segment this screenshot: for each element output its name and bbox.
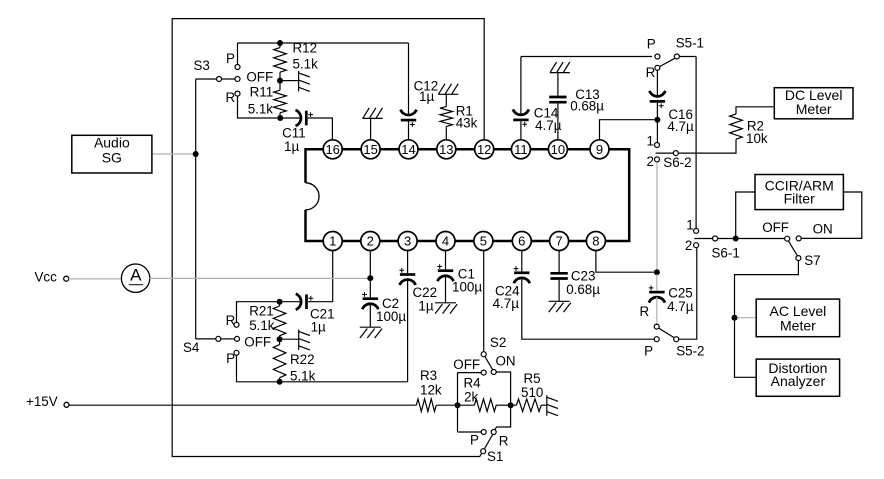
svg-text:P: P	[226, 51, 235, 66]
svg-text:S6-1: S6-1	[712, 246, 740, 261]
svg-text:4.7µ: 4.7µ	[535, 118, 562, 133]
svg-text:Analyzer: Analyzer	[771, 373, 826, 389]
svg-text:5.1k: 5.1k	[293, 57, 319, 72]
svg-text:5.1k: 5.1k	[249, 318, 275, 333]
svg-text:1: 1	[329, 234, 336, 249]
svg-text:2k: 2k	[464, 390, 478, 405]
svg-text:R: R	[646, 65, 656, 80]
svg-text:4: 4	[442, 234, 449, 249]
svg-text:5: 5	[480, 234, 487, 249]
svg-text:43k: 43k	[456, 116, 478, 131]
svg-text:100µ: 100µ	[452, 280, 482, 295]
svg-text:R: R	[499, 433, 509, 448]
svg-text:12: 12	[477, 142, 491, 157]
svg-text:10k: 10k	[746, 131, 768, 146]
svg-text:S1: S1	[487, 449, 503, 464]
svg-text:Filter: Filter	[784, 191, 815, 207]
svg-text:1: 1	[647, 133, 654, 148]
svg-text:1µ: 1µ	[284, 139, 299, 154]
svg-text:8: 8	[592, 234, 599, 249]
svg-text:510: 510	[521, 385, 543, 400]
svg-text:SG: SG	[102, 149, 122, 165]
svg-text:R3: R3	[420, 368, 437, 383]
svg-text:100µ: 100µ	[376, 309, 406, 324]
svg-text:R22: R22	[290, 352, 315, 367]
svg-text:OFF: OFF	[453, 357, 480, 372]
svg-text:7: 7	[555, 234, 562, 249]
svg-text:OFF: OFF	[244, 335, 271, 350]
svg-text:R5: R5	[524, 371, 541, 386]
svg-text:5.1k: 5.1k	[290, 369, 316, 384]
svg-text:S2: S2	[490, 335, 506, 350]
svg-text:R: R	[226, 313, 236, 328]
svg-text:2: 2	[367, 234, 374, 249]
svg-text:3: 3	[404, 234, 411, 249]
svg-text:+15V: +15V	[26, 394, 58, 409]
svg-text:0.68µ: 0.68µ	[566, 282, 600, 297]
svg-text:1: 1	[686, 217, 693, 232]
svg-text:4.7µ: 4.7µ	[667, 119, 694, 134]
svg-text:11: 11	[514, 142, 528, 157]
svg-text:P: P	[647, 36, 656, 51]
svg-text:S4: S4	[183, 340, 200, 355]
svg-text:R: R	[226, 90, 236, 105]
svg-text:A: A	[130, 266, 142, 285]
svg-text:1µ: 1µ	[418, 299, 433, 314]
svg-text:R21: R21	[249, 303, 274, 318]
svg-text:S6-2: S6-2	[663, 155, 691, 170]
svg-text:1µ: 1µ	[419, 89, 434, 104]
svg-text:P: P	[226, 351, 235, 366]
svg-text:4.7µ: 4.7µ	[493, 296, 520, 311]
svg-text:14: 14	[401, 142, 415, 157]
svg-text:S7: S7	[804, 253, 820, 268]
svg-text:P: P	[644, 343, 653, 358]
svg-text:12k: 12k	[420, 383, 442, 398]
svg-text:OFF: OFF	[762, 220, 789, 235]
svg-text:Meter: Meter	[780, 318, 816, 334]
svg-text:R11: R11	[250, 85, 274, 100]
svg-text:OFF: OFF	[246, 69, 273, 84]
svg-text:Audio: Audio	[94, 135, 130, 151]
svg-text:S3: S3	[194, 58, 210, 73]
svg-text:10: 10	[551, 142, 565, 157]
svg-text:S5-1: S5-1	[676, 36, 704, 51]
svg-text:R: R	[640, 304, 650, 319]
svg-text:ON: ON	[496, 354, 516, 369]
svg-text:1µ: 1µ	[311, 320, 326, 335]
svg-text:4.7µ: 4.7µ	[667, 299, 694, 314]
svg-text:6: 6	[518, 234, 525, 249]
svg-text:Vcc: Vcc	[35, 270, 58, 285]
svg-text:S5-2: S5-2	[676, 343, 704, 358]
svg-text:R4: R4	[464, 376, 482, 391]
svg-text:ON: ON	[813, 221, 833, 236]
svg-text:2: 2	[685, 238, 692, 253]
svg-text:2: 2	[647, 154, 654, 169]
svg-text:13: 13	[439, 142, 453, 157]
svg-text:Meter: Meter	[796, 101, 832, 117]
svg-text:15: 15	[363, 142, 377, 157]
svg-text:R12: R12	[293, 41, 318, 56]
svg-text:16: 16	[325, 142, 339, 157]
svg-text:0.68µ: 0.68µ	[570, 98, 604, 113]
svg-text:9: 9	[596, 142, 603, 157]
svg-text:5.1k: 5.1k	[248, 102, 274, 117]
svg-text:P: P	[470, 433, 479, 448]
